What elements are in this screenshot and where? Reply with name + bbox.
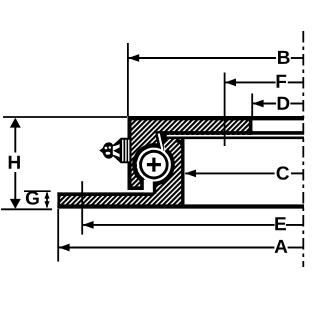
dim A line [59, 247, 275, 249]
centerline axis [302, 31, 304, 267]
label B [278, 51, 290, 64]
outer ring block top-right corner [176, 141, 183, 148]
dim G arrows [44, 192, 49, 199]
flange left edge [57, 192, 60, 208]
dim C arrow [185, 170, 196, 178]
dim B arrow [128, 54, 139, 62]
dim H arrows [10, 118, 21, 128]
dim B line [128, 57, 276, 59]
dim B extension line [127, 43, 129, 116]
dim F extension line [224, 73, 226, 147]
flange top surface line [57, 192, 153, 196]
ball clearance white ring [138, 149, 170, 181]
dim D extension line [251, 94, 253, 117]
dim E extension line [81, 181, 83, 234]
dim G top reference line [24, 190, 51, 192]
notch right wall [153, 177, 157, 194]
inner ring leg bottom line [128, 186, 144, 190]
dim F line [225, 81, 275, 83]
dim H top reference line [3, 116, 127, 118]
label C [277, 166, 289, 179]
inner ring left edge [128, 116, 132, 190]
dim G line [46, 193, 48, 208]
grease nipple thread slits [122, 140, 123, 162]
raceway groove edge outer ring [152, 150, 172, 183]
notch white gap [144, 180, 153, 193]
label A [275, 240, 288, 253]
grease nipple neck black wedge [113, 147, 119, 154]
grease nipple head ball [103, 143, 113, 158]
label H [9, 156, 20, 169]
dim H line [14, 119, 16, 208]
grease nipple head white details [105, 147, 108, 150]
dim H bottom reference line [1, 208, 52, 210]
inner ring top surface line [128, 116, 305, 120]
raceway seam white gap upper [159, 134, 163, 151]
outer ring block right edge [181, 138, 184, 207]
dim C line [185, 172, 274, 174]
dim E arrow [83, 221, 94, 229]
outer ring / flange section (hatched) [58, 193, 185, 209]
dim F arrow [225, 79, 236, 87]
dim A arrow [59, 244, 70, 252]
ball cross mark [147, 158, 161, 172]
outer ring block section (hatched) [155, 139, 184, 193]
grease nipple neck white spool [113, 144, 120, 157]
label G [26, 191, 39, 204]
dim D arrow [253, 100, 264, 108]
raceway step corner black blob [155, 132, 167, 153]
dim A extension line [57, 209, 59, 262]
ball B1 [139, 150, 168, 179]
outer ring top surface line [158, 137, 304, 140]
raceway groove edge inner ring [134, 145, 163, 181]
inner ring bar right edge [249, 117, 253, 135]
bottom surface line [57, 204, 304, 208]
label E [275, 217, 286, 230]
inner ring bore bottom line [157, 131, 305, 135]
label F [277, 75, 287, 88]
dim E line [83, 224, 275, 226]
grease nipple silhouette [99, 138, 130, 164]
dim D line [253, 103, 276, 105]
notch left wall [140, 175, 144, 190]
label D [278, 97, 290, 110]
inner ring section (hatched) [128, 116, 252, 189]
